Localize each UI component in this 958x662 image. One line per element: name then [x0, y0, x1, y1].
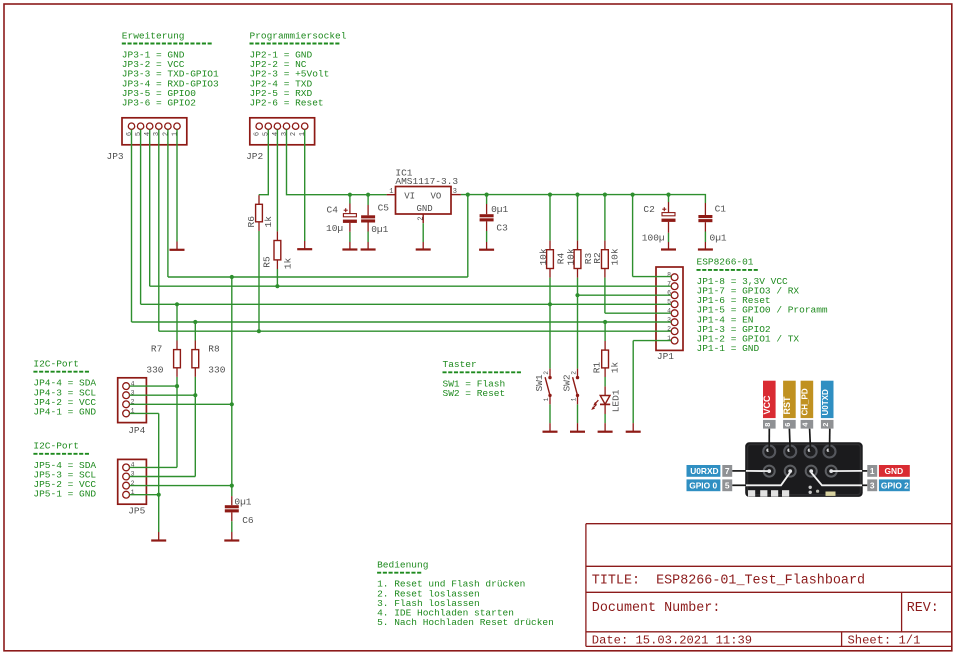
ground LED1 — [598, 423, 613, 432]
svg-text:2: 2 — [543, 371, 550, 375]
chip pin holes — [763, 446, 837, 477]
svg-text:I2C-Port: I2C-Port — [33, 359, 79, 370]
wire C5 stubs — [367, 195, 369, 242]
svg-text:0µ1: 0µ1 — [491, 204, 508, 215]
wire C6 bottom — [231, 521, 233, 532]
svg-text:Taster: Taster — [443, 359, 477, 370]
svg-text:10k: 10k — [565, 248, 576, 265]
svg-text:8: 8 — [763, 423, 772, 427]
svg-text:1: 1 — [543, 397, 550, 401]
svg-text:TITLE: ESP8266-01_Test_Flashb: TITLE: ESP8266-01_Test_Flashboard — [592, 573, 865, 588]
pin label U0RXD left — [687, 465, 721, 477]
note block I2C-Port JP4 — [33, 359, 96, 418]
wire net 3.3V bus IC1 VO to C1 — [461, 195, 706, 203]
svg-text:R2: R2 — [592, 252, 603, 264]
pin label GPIO 0 left — [687, 479, 721, 491]
junction dots — [157, 193, 671, 497]
svg-text:330: 330 — [146, 364, 163, 375]
wire net SCL (R8 / JP4-3 / JP5-3) — [129, 377, 195, 477]
svg-text:JP2-6 = Reset: JP2-6 = Reset — [250, 98, 324, 109]
pin leader lines — [745, 471, 863, 485]
svg-text:330: 330 — [208, 364, 225, 375]
svg-text:VI: VI — [404, 192, 415, 202]
connector JP3 — [122, 118, 187, 145]
svg-text:2: 2 — [570, 371, 577, 375]
svg-text:6: 6 — [254, 132, 262, 136]
wire SW1 bottom — [549, 404, 551, 423]
wire SW2 bottom — [577, 404, 579, 423]
ground JP2-1 — [297, 241, 312, 249]
svg-text:2: 2 — [417, 216, 425, 220]
wire JP2-1 to ground — [304, 130, 306, 242]
svg-text:1: 1 — [870, 466, 875, 476]
resistor R6 1k — [246, 195, 274, 231]
ground JP1-1 — [626, 423, 641, 432]
ground SW1 — [543, 423, 558, 432]
svg-text:3: 3 — [153, 132, 161, 136]
pin label U0TXD — [821, 381, 834, 418]
pin number tags 8 6 4 2 — [763, 420, 834, 429]
ground C6 — [224, 532, 239, 541]
wire C2 stubs — [668, 195, 670, 242]
svg-text:Bedienung: Bedienung — [377, 560, 428, 571]
connector JP5 I2C — [118, 459, 147, 504]
svg-text:R6: R6 — [246, 216, 257, 228]
note block Erweiterung — [122, 30, 219, 108]
svg-text:RST: RST — [782, 396, 792, 415]
svg-text:2: 2 — [821, 423, 830, 427]
capacitor C3 0u1 — [480, 204, 509, 234]
svg-text:JP2: JP2 — [246, 151, 263, 162]
resistor R7 330 — [146, 341, 180, 377]
wire net TX line (JP3-3 / R6 / JP1-2) — [159, 130, 671, 332]
svg-text:GPIO 0: GPIO 0 — [689, 480, 717, 490]
svg-text:JP3-6 = GPIO2: JP3-6 = GPIO2 — [122, 98, 196, 109]
svg-text:1k: 1k — [610, 362, 621, 374]
wire JP3-1 to ground — [176, 130, 178, 242]
svg-text:R1: R1 — [592, 362, 603, 374]
resistor R8 330 — [192, 341, 226, 377]
svg-text:SW1: SW1 — [534, 374, 545, 391]
ground SW2 — [570, 423, 585, 432]
ESP-01 chip body — [745, 442, 863, 497]
svg-text:GND: GND — [885, 466, 904, 476]
ESP-01 module pinout illustration — [687, 381, 910, 497]
svg-text:JP1: JP1 — [657, 351, 674, 362]
capacitor C4 10u polarized — [326, 204, 357, 235]
svg-text:4: 4 — [272, 132, 280, 136]
pin label CH_PD — [801, 381, 814, 418]
svg-text:10µ: 10µ — [326, 223, 343, 234]
svg-text:LED1: LED1 — [611, 389, 622, 412]
svg-text:C5: C5 — [378, 203, 390, 214]
svg-text:Sheet: 1/1: Sheet: 1/1 — [848, 634, 921, 648]
note block ESP8266-01 pins — [697, 257, 828, 354]
svg-text:5: 5 — [263, 132, 271, 136]
LED LED1 — [591, 386, 621, 414]
ground C3 — [479, 242, 494, 250]
svg-text:VO: VO — [431, 192, 442, 202]
wire net GPIO0 line (JP3-5 / R7 / SW1 / JP1-5) — [141, 130, 672, 341]
svg-text:1k: 1k — [263, 216, 274, 228]
svg-text:1: 1 — [171, 132, 179, 136]
wire net GND I2C (JP4-1 / JP5-1) — [129, 413, 158, 532]
wire net +5V from JP2-3 to IC1 VI — [287, 130, 387, 195]
switch SW2 Reset — [562, 369, 580, 405]
svg-text:1k: 1k — [283, 258, 294, 270]
wire net RX line (JP3-4 / R5 / JP1-7) — [150, 130, 672, 287]
svg-text:1: 1 — [299, 132, 307, 136]
svg-text:GPIO 2: GPIO 2 — [881, 480, 909, 490]
op-amp/regulator IC1 AMS1117-3.3 — [387, 187, 461, 224]
note block I2C-Port JP5 — [33, 441, 96, 500]
wire net SDA (R7 / JP4-4 / JP5-4) — [129, 377, 177, 468]
svg-text:5: 5 — [725, 480, 730, 490]
ground C4 — [342, 242, 357, 250]
svg-text:2: 2 — [162, 132, 170, 136]
note block Taster — [443, 359, 522, 399]
svg-text:10k: 10k — [538, 248, 549, 265]
svg-text:Document Number:: Document Number: — [592, 601, 721, 616]
title block — [586, 524, 952, 647]
svg-text:C4: C4 — [327, 204, 339, 215]
svg-text:R8: R8 — [208, 344, 220, 355]
resistor R5 1k — [261, 231, 293, 269]
svg-text:U0RXD: U0RXD — [690, 466, 718, 476]
wire LED1 bottom — [604, 414, 606, 423]
ground C5 — [361, 242, 376, 250]
capacitor C5 0u1 — [361, 203, 389, 236]
svg-text:5. Nach Hochladen Reset drücke: 5. Nach Hochladen Reset drücken — [377, 617, 554, 628]
svg-text:3: 3 — [281, 132, 289, 136]
svg-text:VCC: VCC — [762, 395, 772, 415]
wire C4 stubs — [349, 195, 351, 242]
pin label GND right — [867, 465, 877, 477]
svg-text:10k: 10k — [610, 248, 621, 265]
resistor R2 10k — [592, 241, 621, 278]
svg-text:5: 5 — [135, 132, 143, 136]
switch SW1 Flash — [534, 369, 552, 405]
svg-text:3: 3 — [453, 188, 457, 196]
connector JP1 ESP8266 socket — [656, 267, 683, 350]
svg-text:2: 2 — [290, 132, 298, 136]
ground IC1 — [416, 242, 431, 250]
ground C1 — [698, 242, 713, 250]
note block Bedienung — [377, 560, 554, 629]
svg-text:I2C-Port: I2C-Port — [33, 441, 79, 452]
svg-text:U0TXD: U0TXD — [821, 389, 830, 415]
wire net Reset line (R3 / SW2 / JP1-6) — [578, 294, 672, 296]
svg-text:JP3: JP3 — [107, 151, 124, 162]
svg-text:R5: R5 — [261, 256, 272, 268]
svg-text:4: 4 — [144, 132, 152, 136]
svg-text:C6: C6 — [242, 515, 254, 526]
capacitor C1 0u1 — [698, 203, 727, 244]
chip solder pads — [748, 486, 836, 497]
svg-text:7: 7 — [725, 466, 730, 476]
resistor R3 10k — [565, 241, 594, 278]
svg-text:AMS1117-3.3: AMS1117-3.3 — [395, 176, 458, 187]
resistor R1 1k — [592, 341, 621, 377]
note block Programmiersockel — [250, 30, 347, 108]
svg-text:C1: C1 — [715, 204, 727, 215]
wire net EN line (R2 / JP1-4) — [605, 312, 671, 314]
wire JP2-5 RXD to R6 — [259, 130, 268, 196]
svg-text:ESP8266-01: ESP8266-01 — [697, 257, 754, 268]
wire JP2-4 TXD to R5 — [276, 130, 278, 232]
svg-text:SW2: SW2 — [562, 374, 573, 391]
connector JP2 — [250, 118, 315, 145]
svg-text:Erweiterung: Erweiterung — [122, 30, 185, 41]
svg-text:Date: 15.03.2021 11:39: Date: 15.03.2021 11:39 — [592, 634, 752, 648]
capacitor C6 0u1 — [225, 496, 254, 526]
wire R2 pull-up — [604, 195, 606, 314]
svg-text:1: 1 — [570, 397, 577, 401]
svg-text:6: 6 — [126, 132, 134, 136]
wire C1 bottom — [704, 232, 706, 243]
svg-text:1: 1 — [389, 188, 393, 196]
svg-text:GND: GND — [417, 204, 433, 214]
wire R1 to LED1 — [604, 377, 606, 386]
svg-text:100µ: 100µ — [642, 233, 665, 244]
capacitor C2 100u polarized — [642, 202, 676, 244]
svg-text:CH_PD: CH_PD — [801, 388, 810, 415]
ground JP4/JP5 — [151, 532, 166, 541]
pin label VCC — [763, 381, 776, 418]
ground C2 — [661, 242, 676, 250]
svg-text:3: 3 — [870, 480, 875, 490]
svg-text:Programmiersockel: Programmiersockel — [250, 30, 347, 41]
svg-text:JP5-1 = GND: JP5-1 = GND — [33, 489, 96, 500]
wire JP1-1 GND down — [633, 341, 671, 424]
svg-text:6: 6 — [783, 423, 792, 427]
wire R4 pull-up / SW1 — [549, 195, 551, 369]
wire IC1 GND to ground — [422, 223, 424, 242]
svg-text:C3: C3 — [496, 223, 508, 234]
svg-text:JP5: JP5 — [128, 506, 145, 517]
svg-text:JP4-1 = GND: JP4-1 = GND — [33, 407, 96, 418]
wire net GPIO2 line (JP3-6 / R8 / R1 / JP1-3) — [132, 130, 672, 342]
svg-text:JP1-1 = GND: JP1-1 = GND — [697, 343, 760, 354]
svg-text:JP4: JP4 — [128, 425, 145, 436]
connector JP4 I2C — [118, 378, 147, 423]
svg-text:C2: C2 — [643, 204, 655, 215]
svg-text:0µ1: 0µ1 — [710, 233, 727, 244]
svg-text:0µ1: 0µ1 — [371, 224, 388, 235]
svg-text:0µ1: 0µ1 — [234, 497, 251, 508]
wire net VCC 3.3V distribution — [129, 130, 671, 497]
resistor R4 10k — [538, 241, 567, 278]
pin label RST — [783, 381, 796, 418]
wire R3 pull-up / SW2 — [577, 195, 579, 369]
svg-text:REV:: REV: — [907, 601, 939, 616]
pin label GPIO 2 right — [867, 479, 877, 491]
svg-text:SW2 = Reset: SW2 = Reset — [443, 388, 506, 399]
svg-text:R7: R7 — [151, 344, 162, 355]
ground JP3-1 — [170, 242, 185, 250]
svg-text:8: 8 — [667, 271, 671, 278]
wire C3 stubs — [486, 195, 488, 242]
